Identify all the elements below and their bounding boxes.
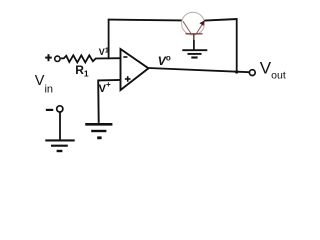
transistor Q1 body circle <box>182 12 205 35</box>
svg-text:Vo: Vo <box>158 53 171 68</box>
wire: feedback vertical <box>108 19 110 59</box>
svg-text:V1: V1 <box>99 47 109 57</box>
wire: non-inverting input and drop to ground <box>98 80 120 123</box>
ground under transistor <box>182 50 207 57</box>
op-amp non-inverting marker <box>125 76 131 82</box>
wire: right vertical drop <box>236 18 238 72</box>
op-amp inverting marker <box>123 56 127 58</box>
wire: feedback top horizontal <box>108 19 182 22</box>
junction dot <box>235 70 238 73</box>
ground at Vin source <box>45 140 74 151</box>
wire: transistor base to ground <box>193 40 195 50</box>
minus sign of input source <box>46 109 53 111</box>
wire: − terminal to ground <box>59 112 61 140</box>
transistor Q1 base bar <box>186 33 203 35</box>
wire: op-amp output <box>149 68 250 72</box>
transistor Q1 emitter diagonal <box>197 22 204 33</box>
wire: transistor to top-right corner <box>204 19 237 21</box>
transistor Q1 emitter arrow <box>199 20 204 26</box>
transistor base stub (inside circle) <box>193 34 195 40</box>
svg-text:V+: V+ <box>99 80 111 95</box>
svg-text:Vout: Vout <box>260 58 286 81</box>
op-amp U1 <box>121 49 149 90</box>
plus sign of input source <box>45 54 52 61</box>
input + terminal <box>55 56 60 61</box>
transistor Q1 collector diagonal <box>183 21 191 33</box>
svg-text:R1: R1 <box>75 63 89 79</box>
output terminal <box>249 70 255 76</box>
ground at V+ <box>85 124 112 138</box>
input − terminal <box>57 106 63 112</box>
svg-text:Vin: Vin <box>35 73 53 96</box>
resistor R1 <box>61 55 121 62</box>
